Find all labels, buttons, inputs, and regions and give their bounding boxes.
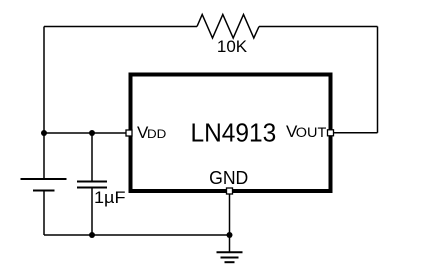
svg-text:10K: 10K bbox=[217, 37, 248, 56]
wire top-left horizontal from left vertical to resistor bbox=[44, 26, 197, 28]
wire VOUT horizontal into pin bbox=[331, 132, 378, 134]
capacitor C1 bottom lead wire bbox=[91, 188, 93, 236]
capacitor C1 top plate bbox=[77, 181, 107, 183]
pin label VDD bbox=[137, 123, 167, 142]
node C junction dot (capacitor bottom / bottom wire) bbox=[89, 232, 95, 238]
pin VDD square bbox=[126, 130, 132, 136]
svg-text:DD: DD bbox=[147, 127, 167, 141]
battery V1 top lead wire bbox=[43, 133, 45, 179]
node D junction dot (GND wire / bottom wire) bbox=[227, 232, 233, 238]
battery V1 bottom lead wire bbox=[43, 191, 45, 236]
node B junction dot (capacitor top / VDD wire) bbox=[89, 130, 95, 136]
battery V1 positive plate (long) bbox=[21, 178, 67, 180]
wire right vertical down to VOUT level bbox=[377, 27, 379, 133]
capacitor C1 bottom plate bbox=[77, 187, 107, 189]
resistor 10K bbox=[197, 15, 259, 39]
pin label VOUT bbox=[286, 122, 326, 141]
pin GND square bbox=[227, 188, 233, 194]
wire VDD horizontal from node A to pin bbox=[44, 132, 129, 134]
pin VOUT square bbox=[328, 130, 334, 136]
svg-text:LN4913: LN4913 bbox=[191, 118, 277, 148]
wire GND pin down to ground bbox=[229, 194, 231, 252]
node A junction dot (left vertical / VDD wire) bbox=[41, 130, 47, 136]
wire bottom horizontal from battery to ground node bbox=[44, 234, 230, 236]
wire left vertical from top corner down to VDD node bbox=[43, 27, 45, 134]
ground symbol bbox=[217, 252, 243, 262]
svg-text:1µF: 1µF bbox=[94, 189, 126, 207]
battery V1 negative plate (short) bbox=[33, 190, 55, 192]
capacitor C1 top lead wire bbox=[91, 133, 93, 182]
svg-text:OUT: OUT bbox=[296, 125, 327, 140]
IC U1 LN4913 body bbox=[131, 75, 331, 192]
wire top-right horizontal from resistor to right corner bbox=[259, 26, 378, 28]
svg-text:GND: GND bbox=[209, 168, 248, 188]
